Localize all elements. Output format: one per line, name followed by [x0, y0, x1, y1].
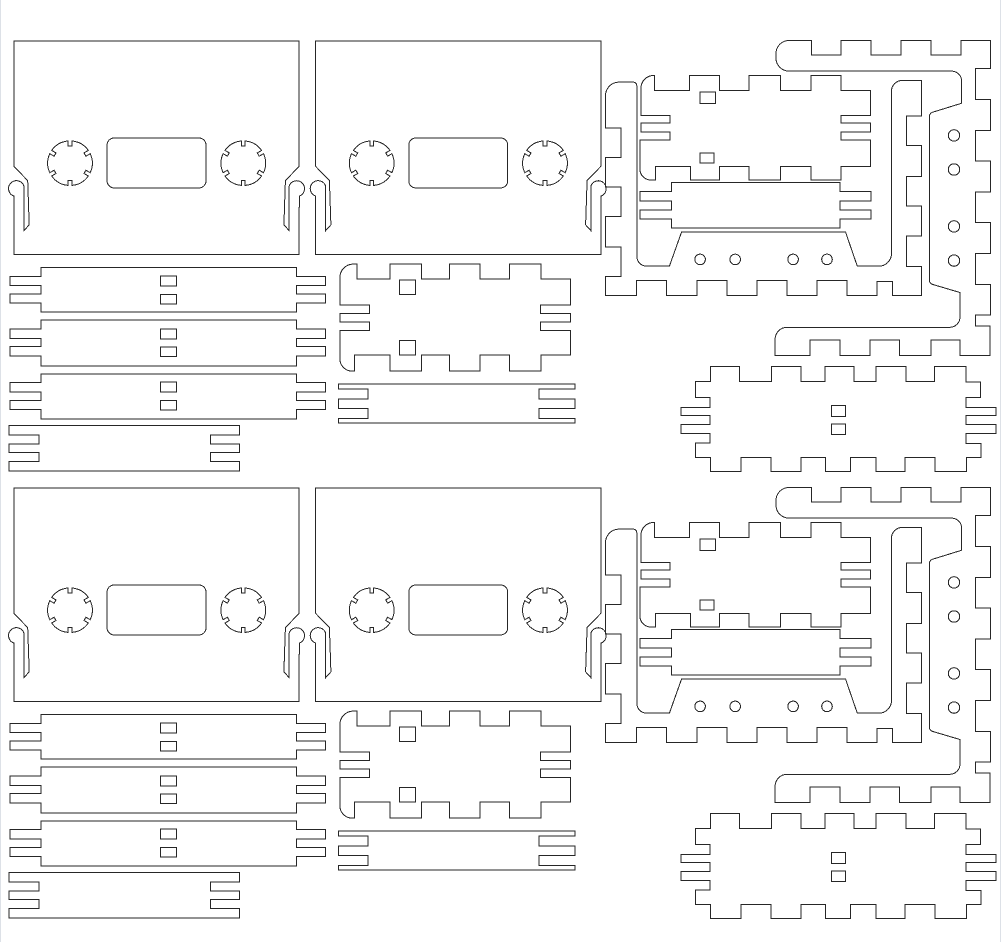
comb strip S5: [339, 384, 575, 423]
canvas border right: [1000, 0, 1002, 942]
cassette front panel 2: [310, 41, 606, 255]
side strip 3: [10, 374, 326, 419]
hole in C frame arm: [948, 221, 959, 232]
reel hub left (panel 2): [349, 141, 394, 185]
bottom right long piece: [681, 367, 996, 472]
castellated plate (right group): [640, 76, 870, 181]
hole in bracket hump: [822, 254, 833, 265]
comb strip S4: [9, 426, 240, 472]
reel hub left (panel 1): [48, 141, 93, 185]
hole in bracket hump: [695, 254, 706, 265]
hole in bracket hump: [730, 254, 741, 265]
bar with finger tabs (right group): [640, 183, 871, 228]
reel hub right (panel 2): [523, 141, 568, 185]
hole in C frame arm: [948, 255, 959, 266]
castellated plate A: [340, 264, 571, 371]
reel hub right (panel 1): [221, 141, 266, 185]
hole in C frame arm: [948, 130, 959, 141]
side strip 2: [10, 320, 326, 366]
window (panel 2): [409, 138, 508, 188]
canvas border left: [0, 0, 2, 942]
window (panel 1): [107, 138, 206, 188]
inner bracket piece: [606, 81, 922, 296]
hole in bracket hump: [788, 254, 799, 265]
outer C frame: [775, 41, 991, 356]
cassette front panel 1: [9, 41, 305, 255]
side strip 1: [10, 267, 326, 312]
hole in C frame arm: [948, 164, 959, 175]
